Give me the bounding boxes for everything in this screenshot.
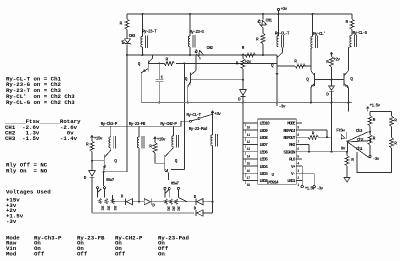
svg-text:V+: V+ [291,165,296,170]
svg-text:16: 16 [247,170,250,174]
svg-text:R: R [86,143,89,148]
svg-text:Q: Q [350,77,353,82]
svg-text:Q: Q [306,78,309,83]
svg-text:Voltages Used: Voltages Used [6,188,51,195]
svg-text:D: D [238,97,241,102]
svg-text:R: R [256,38,259,43]
svg-text:Off: Off [115,251,126,258]
svg-text:2K2: 2K2 [112,206,116,211]
svg-text:CH3: CH3 [129,34,136,39]
svg-text:LED5: LED5 [260,158,269,163]
svg-text:SIGNIN: SIGNIN [283,150,295,155]
svg-text:14: 14 [247,155,250,159]
svg-text:18: 18 [247,184,250,188]
svg-text:+2v: +2v [245,60,252,65]
svg-text:FtSw: FtSw [336,129,345,134]
svg-text:Ry-CL-G: Ry-CL-G [353,31,368,36]
svg-text:11: 11 [247,134,250,138]
svg-text:D: D [152,204,155,209]
svg-text:CH3 -1.5v -1.4v: CH3 -1.5v -1.4v [5,135,78,142]
svg-text:Q: Q [114,159,117,164]
svg-text:Q: Q [138,62,141,67]
svg-text:LM3914: LM3914 [267,180,279,185]
svg-text:Ry-23-Pad: Ry-23-Pad [189,127,208,132]
svg-text:Ry-CL-T: Ry-CL-T [186,113,201,118]
svg-text:R: R [149,145,152,150]
svg-text:R: R [351,158,354,163]
svg-text:2K2: 2K2 [99,206,103,211]
svg-text:LED9: LED9 [260,129,269,134]
svg-text:+1.5v: +1.5v [305,186,316,191]
svg-text:Off: Off [77,251,88,258]
svg-text:Ry-23-G: Ry-23-G [189,30,204,35]
svg-text:-3v: -3v [317,186,324,191]
svg-text:9v: 9v [341,147,346,152]
svg-text:+15v: +15v [94,137,103,142]
svg-text:LED8: LED8 [260,136,269,141]
svg-text:LED1: LED1 [287,179,296,184]
svg-text:Ry-CL-T: Ry-CL-T [275,31,290,36]
svg-text:Ry-23-T: Ry-23-T [142,30,157,35]
svg-text:Ry-CH2-P: Ry-CH2-P [160,122,177,127]
svg-text:R: R [120,22,123,27]
svg-text:12: 12 [247,141,250,145]
svg-text:0Sw7: 0Sw7 [106,178,115,183]
svg-text:R: R [394,119,397,124]
svg-text:Ry-CL-G on = Ch2 Ch3: Ry-CL-G on = Ch2 Ch3 [6,99,75,106]
svg-text:Ch2: Ch2 [357,138,364,143]
svg-text:R: R [294,60,297,65]
svg-text:R: R [166,57,169,62]
svg-text:V-: V- [291,172,295,177]
svg-text:Q: Q [271,63,274,68]
svg-text:REFADJ: REFADJ [283,129,295,134]
svg-text:LED7: LED7 [260,143,269,148]
svg-text:+2v: +2v [333,58,340,63]
svg-text:+3v: +3v [214,112,221,117]
svg-text:Mod: Mod [6,251,17,258]
svg-text:Ch1: Ch1 [356,147,363,152]
svg-text:D: D [121,195,124,200]
svg-text:LED3: LED3 [260,172,269,177]
svg-text:1: 1 [297,184,299,188]
svg-text:Q: Q [185,77,188,82]
svg-text:Ch3: Ch3 [356,129,363,134]
svg-text:2K2: 2K2 [165,206,169,211]
svg-text:RLO: RLO [289,158,296,163]
svg-text:R: R [394,142,397,147]
svg-text:13: 13 [247,148,250,152]
svg-text:R: R [242,46,245,51]
svg-text:LED10: LED10 [260,122,271,127]
svg-text:-3v: -3v [6,218,17,225]
svg-text:+3v: +3v [281,7,288,12]
svg-text:2K2: 2K2 [176,206,180,211]
svg-text:R: R [373,136,376,141]
svg-text:-3v: -3v [279,105,286,110]
svg-text:Off: Off [34,251,45,258]
svg-text:2K2: 2K2 [170,206,174,211]
svg-text:-3v: -3v [373,157,380,162]
svg-text:R: R [373,118,376,123]
svg-text:R: R [236,62,239,67]
svg-text:Q: Q [175,159,178,164]
svg-text:D: D [84,176,87,181]
svg-text:15: 15 [247,163,250,167]
svg-text:Rly On = NO: Rly On = NO [6,167,48,174]
svg-text:2K2: 2K2 [106,206,110,211]
svg-text:+15v: +15v [157,138,166,143]
svg-text:REFOUT: REFOUT [283,136,295,141]
svg-text:LED6: LED6 [260,150,269,155]
svg-text:On: On [158,251,165,258]
svg-text:R: R [346,20,349,25]
svg-text:RHI: RHI [289,143,296,148]
svg-text:LED4: LED4 [260,165,269,170]
svg-text:CH2: CH2 [207,46,214,51]
svg-text:CH1: CH1 [266,19,273,24]
svg-text:D: D [326,92,329,97]
svg-text:Ry-23-FB: Ry-23-FB [129,122,146,127]
svg-text:Ry-Ch3-P: Ry-Ch3-P [101,122,118,127]
svg-text:Ry-CL': Ry-CL' [313,32,325,37]
svg-text:+1.5v: +1.5v [370,103,381,108]
svg-text:U: U [272,173,275,178]
svg-text:10: 10 [247,127,250,131]
svg-text:0Sw7: 0Sw7 [171,182,180,187]
svg-text:17: 17 [247,177,250,181]
svg-text:MODE: MODE [287,122,296,127]
